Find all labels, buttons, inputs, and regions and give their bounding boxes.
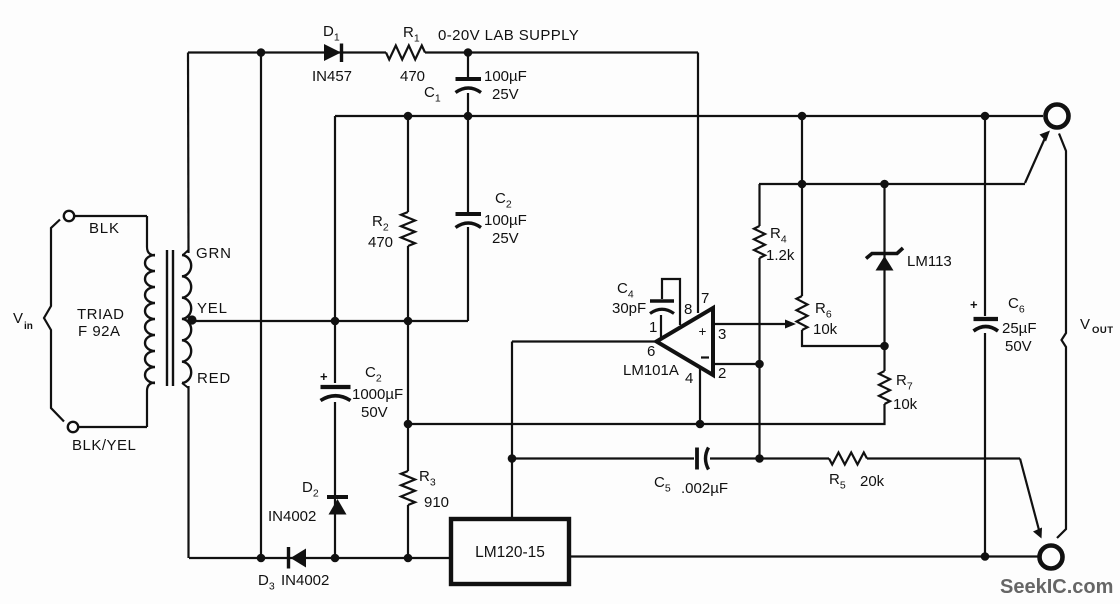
- label pin 8: [684, 301, 692, 318]
- capacitor C2 100uF: [456, 214, 482, 228]
- label C4 value 30pF: [612, 300, 646, 317]
- label R6 value 10k: [813, 321, 838, 338]
- svg-text:8: 8: [684, 301, 692, 318]
- node junction y=116 x=985: [981, 112, 990, 121]
- resistor R2 470: [401, 212, 415, 246]
- label BLK/YEL: [72, 437, 136, 454]
- label R5: [829, 471, 846, 492]
- wire RED lead x=188.5: [182, 383, 189, 558]
- label C4: [617, 280, 634, 301]
- node junction YEL tap x=335: [331, 317, 340, 326]
- label C2 value 1000uF: [352, 386, 403, 403]
- label C5: [654, 474, 671, 495]
- svg-text:30pF: 30pF: [612, 300, 646, 317]
- svg-text:470: 470: [400, 68, 425, 85]
- node junction bottom-right x=985: [981, 552, 990, 561]
- label pin 6: [647, 343, 655, 360]
- label R5 value 20k: [860, 473, 885, 490]
- svg-text:LM101A: LM101A: [623, 362, 679, 379]
- node junction YEL tap x=408: [404, 317, 413, 326]
- svg-text:TRIAD: TRIAD: [77, 306, 125, 323]
- node junction y=116 x=468: [464, 112, 473, 121]
- node junction y=116 x=802: [798, 112, 807, 121]
- label C5 value .002uF: [681, 480, 728, 497]
- node junction y=184 x=802: [798, 180, 807, 189]
- node junction y=184 x=884.5: [880, 180, 889, 189]
- node junction pin2/R4 x=759.5 y=364: [755, 360, 764, 369]
- label pin 2: [718, 365, 726, 382]
- transformer T1 secondary winding: [182, 255, 191, 383]
- node junction bottom x=335: [331, 554, 340, 563]
- terminal BLK input: [64, 211, 74, 221]
- label Vout: [1080, 316, 1114, 336]
- wire bottom rail right y=556.5: [569, 555, 1040, 557]
- wire C4 bottom to pin1: [660, 315, 662, 338]
- label R6: [815, 300, 832, 321]
- R6 wiper arrowhead: [785, 320, 796, 329]
- svg-text:BLK/YEL: BLK/YEL: [72, 437, 136, 454]
- wire C4 top loop to pin8: [662, 279, 680, 325]
- wire vertical x=884.5 LM113 branch: [883, 184, 885, 346]
- node junction x=759.5 y=458.5: [755, 454, 764, 463]
- node junction bottom x=261: [257, 554, 266, 563]
- wire vertical rail x=261 top-to-bottom: [260, 53, 262, 559]
- node junction y=424 x=700 (pin4): [696, 420, 705, 429]
- wire vertical x=408 mid (R2 to y424): [407, 246, 409, 424]
- svg-text:0-20V LAB SUPPLY: 0-20V LAB SUPPLY: [438, 27, 579, 44]
- label LM113: [907, 253, 952, 270]
- label R1: [403, 24, 420, 45]
- wire vertical x=985 (C6 column): [984, 116, 986, 556]
- svg-text:GRN: GRN: [196, 245, 232, 262]
- label GRN: [196, 245, 232, 262]
- diode D1 IN457: [324, 44, 342, 63]
- node junction bottom x=408: [404, 554, 413, 563]
- svg-text:.002µF: .002µF: [681, 480, 728, 497]
- label C1 value 25V: [492, 86, 519, 103]
- label C1 value 100uF: [484, 68, 527, 85]
- arrow wiper line to top terminal: [1025, 131, 1050, 184]
- svg-text:V: V: [13, 310, 23, 327]
- diode D3 IN4002: [289, 547, 307, 569]
- svg-text:+: +: [320, 369, 328, 384]
- svg-text:910: 910: [424, 494, 449, 511]
- label R3: [419, 468, 436, 489]
- wire top rail y=52.5 (R1 to corner x=698): [425, 51, 698, 53]
- label 0-20V LAB SUPPLY: [438, 27, 579, 44]
- label R4 value 1.2k: [766, 247, 795, 264]
- wire vertical x=335 (y116 to bottom): [334, 116, 336, 558]
- resistor R7 10k: [879, 371, 890, 404]
- label D3 IN4002: [281, 572, 329, 589]
- op-amp plus sign: [699, 324, 707, 339]
- svg-text:LM120-15: LM120-15: [475, 544, 545, 561]
- wire op-amp pin4 drop x=700: [699, 366, 701, 424]
- wire primary top feed x=147: [147, 216, 155, 256]
- label R2 value 470: [368, 234, 393, 251]
- node junction y=424 x=408: [404, 420, 413, 429]
- op-amp minus sign: [701, 356, 709, 358]
- label C2 value 25V: [492, 230, 519, 247]
- svg-text:IN4002: IN4002: [268, 508, 316, 525]
- wire vertical x=512 (pin6 to LM120): [511, 342, 513, 520]
- svg-text:25V: 25V: [492, 230, 519, 247]
- wire bottom rail left y=558: [189, 557, 451, 559]
- terminal BLK/YEL input: [68, 422, 78, 432]
- svg-text:20k: 20k: [860, 473, 885, 490]
- wire vertical x=408 lower (y424,R3,bottom): [407, 424, 409, 558]
- svg-text:1: 1: [649, 319, 657, 336]
- resistor R4 1.2k: [754, 226, 765, 258]
- label C2 value 50V: [361, 404, 388, 421]
- label LM120-15: [475, 544, 545, 561]
- resistor R3 910: [401, 471, 415, 505]
- svg-text:in: in: [24, 321, 33, 332]
- label C2 value 100uF: [484, 212, 527, 229]
- wire C5 row y=458.5 (R5 to corner): [867, 457, 1020, 459]
- label pin 3: [718, 326, 726, 343]
- wire vertical x=188 GRN lead to top rail: [183, 53, 189, 256]
- label D3: [258, 572, 275, 593]
- wire primary bottom feed x=147: [147, 383, 155, 428]
- svg-text:RED: RED: [197, 370, 231, 387]
- label BLK: [89, 220, 120, 237]
- transformer T1 primary winding: [145, 255, 155, 383]
- label R3 value 910: [424, 494, 449, 511]
- wire BLK lead y=216: [74, 215, 147, 217]
- svg-text:6: 6: [647, 343, 655, 360]
- wire BLK/YEL lead y=427: [78, 426, 147, 428]
- svg-text:470: 470: [368, 234, 393, 251]
- svg-text:10k: 10k: [813, 321, 838, 338]
- label RED: [197, 370, 231, 387]
- capacitor C2 1000uF 50V: [320, 369, 351, 401]
- label R4: [770, 225, 787, 246]
- svg-text:YEL: YEL: [197, 300, 228, 317]
- capacitor C5 .002uF: [697, 448, 709, 470]
- label C6 value 50V: [1005, 338, 1032, 355]
- svg-text:SeekIC.com: SeekIC.com: [1000, 576, 1113, 598]
- terminal Vout+ top: [1046, 105, 1069, 128]
- label IN457: [312, 68, 352, 85]
- node junction top rail x=468 (C1 tap): [464, 48, 473, 57]
- label pin 4: [685, 370, 693, 387]
- resistor R5 20k: [829, 453, 867, 465]
- label LM101A: [623, 362, 679, 379]
- label R2: [372, 213, 389, 234]
- svg-text:+: +: [970, 297, 978, 312]
- Vin brace: [44, 220, 64, 422]
- svg-text:OUT: OUT: [1092, 325, 1114, 336]
- wire vertical x=884.5 R7 to y424 corner: [408, 346, 885, 424]
- label F 92A: [78, 323, 121, 340]
- svg-text:3: 3: [718, 326, 726, 343]
- svg-text:F 92A: F 92A: [78, 323, 121, 340]
- wire vertical x=468 (C1/C2 column): [467, 53, 469, 322]
- svg-text:50V: 50V: [361, 404, 388, 421]
- label C2(100uF): [495, 190, 512, 211]
- wire YEL center-tap y=321: [191, 320, 468, 322]
- label D1: [323, 23, 340, 44]
- svg-text:25V: 25V: [492, 86, 519, 103]
- potentiometer R6 10k: [797, 296, 808, 330]
- node junction x=512 y=458.5 (C5 tap): [508, 454, 517, 463]
- label pin 1: [649, 319, 657, 336]
- svg-text:25µF: 25µF: [1002, 320, 1037, 337]
- label C6 value 25uF: [1002, 320, 1037, 337]
- node junction R6/R7/LM113 y=346: [880, 342, 889, 351]
- svg-text:4: 4: [685, 370, 693, 387]
- label TRIAD: [77, 306, 125, 323]
- node YEL center tap: [187, 315, 196, 324]
- wire R6 bottom to R7 top junction: [802, 330, 885, 346]
- label R1 value 470: [400, 68, 425, 85]
- svg-text:100µF: 100µF: [484, 212, 527, 229]
- label YEL: [197, 300, 228, 317]
- label R7: [896, 372, 913, 393]
- node junction y=116 x=408: [404, 112, 413, 121]
- svg-text:IN4002: IN4002: [281, 572, 329, 589]
- label Vin: [13, 310, 33, 332]
- capacitor C6 25uF 50V: [970, 297, 998, 331]
- diode D2 IN4002: [327, 497, 348, 515]
- svg-text:LM113: LM113: [907, 253, 952, 270]
- label D2: [302, 479, 319, 500]
- watermark SeekIC.com: [1000, 576, 1113, 598]
- label D2 IN4002: [268, 508, 316, 525]
- svg-text:100µF: 100µF: [484, 68, 527, 85]
- resistor R1 470: [386, 46, 425, 60]
- zener D4 LM113: [866, 248, 903, 271]
- wire vertical x=698 pin7 supply drop: [697, 53, 699, 314]
- capacitor C4 30pF: [650, 301, 674, 314]
- op-amp U1 LM101A triangle: [657, 308, 714, 375]
- label C1: [424, 84, 441, 105]
- wire vertical x=408 upper (y116 to R2): [407, 116, 409, 212]
- regulator U2 LM120-15 box: [451, 519, 569, 584]
- wire C5 row y=458.5 (C5 to R5): [710, 457, 829, 459]
- transformer T1 core: [167, 250, 173, 386]
- terminal Vout- bottom: [1040, 546, 1063, 569]
- svg-text:IN457: IN457: [312, 68, 352, 85]
- svg-text:+: +: [699, 324, 707, 339]
- wire C5 row y=458.5 (left of C5): [512, 457, 694, 459]
- svg-text:2: 2: [718, 365, 726, 382]
- svg-text:1.2k: 1.2k: [766, 247, 795, 264]
- svg-text:V: V: [1080, 316, 1090, 333]
- svg-text:10k: 10k: [893, 396, 918, 413]
- node junction top rail x=261: [257, 48, 266, 57]
- wire vertical x=802 (R6 top feed): [801, 116, 803, 296]
- wire vertical x=759.5 (R4 branch): [758, 184, 760, 459]
- wire op-amp pin3 to R6 wiper y=324: [713, 323, 788, 325]
- svg-text:50V: 50V: [1005, 338, 1032, 355]
- label R7 value 10k: [893, 396, 918, 413]
- svg-text:1000µF: 1000µF: [352, 386, 403, 403]
- wire top rail y=52.5 (left segment to R1): [188, 51, 386, 53]
- wire second rail y=116: [335, 115, 1043, 117]
- wire op-amp pin6 output y=341.5: [512, 340, 657, 342]
- svg-text:7: 7: [701, 290, 709, 307]
- capacitor C1 100uF: [456, 79, 482, 93]
- svg-text:BLK: BLK: [89, 220, 120, 237]
- Vout brace: [1057, 134, 1066, 539]
- wire op-amp pin2 y=364: [713, 363, 760, 365]
- label C6: [1008, 295, 1025, 316]
- label pin 7: [701, 290, 709, 307]
- arrow line to bottom terminal: [1020, 459, 1042, 539]
- wire third rail y=184: [759, 183, 1025, 185]
- label C2(1000uF): [365, 364, 382, 385]
